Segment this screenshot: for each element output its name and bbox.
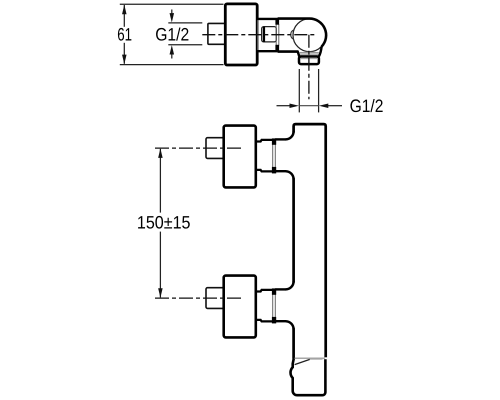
upper knob centerline [153,147,241,149]
index notch on circle [291,30,294,40]
upper knob fillet top [286,131,294,139]
outlet collar box [299,57,319,65]
upper flange [272,144,274,168]
lower stub front view [206,288,225,309]
spout chamfer line [295,359,310,364]
spout front view [291,358,326,395]
flange top view [275,24,277,46]
extension line G1/2 upper [168,22,202,24]
extension line outlet right [318,69,320,112]
lower knob centerline [153,297,241,299]
extension line bottom (61 dim) [120,64,224,66]
upper neck lines flange-to-body [275,138,286,140]
knob circle top view [293,19,326,52]
main vertical body front view [294,124,326,359]
vertical centerline below circle [308,35,310,100]
lower handle front view [224,276,256,338]
valve head thick boundary [278,19,327,47]
spout joint gap on right edge [324,357,327,359]
dimension line 150±15 [159,149,161,213]
dimension line G1/2 bottom [277,105,291,107]
lower neck lines handle-to-flange [256,290,273,292]
handle body square top view [225,4,257,65]
dimension line 61 [123,5,125,27]
extension line G1/2 lower [168,44,202,46]
upper handle front view [224,126,256,188]
dimension arrows G1/2 top view [171,10,173,15]
outlet collar trapezoid [299,52,320,57]
neck top line top view [257,18,277,20]
lower knob fillet top [286,281,294,289]
cartridge rect in neck [262,27,277,42]
upper stub front view [206,138,225,159]
seam line behind neck [257,20,259,51]
extension line top (61 dim) [120,3,224,5]
extension line outlet left [298,69,300,112]
spout joint line [295,357,325,359]
svg-text:G1/2: G1/2 [155,25,189,45]
lower knob fillet bottom [286,321,294,329]
upper knob fillet bottom [286,171,294,179]
white patch over left edge at lower knob mouth [292,283,296,329]
inlet stub top view [208,23,226,44]
horizontal centerline top view [202,34,316,36]
neck bottom line top view [257,50,277,52]
white patch over left edge at upper knob mouth [292,133,296,179]
svg-text:150±15: 150±15 [137,213,191,233]
lower neck lines flange-to-body [275,288,286,290]
svg-text:G1/2: G1/2 [350,96,384,116]
valve head outline top view [278,19,326,52]
svg-text:61: 61 [117,25,132,45]
upper neck lines handle-to-flange [256,140,273,142]
lower flange [272,294,274,318]
